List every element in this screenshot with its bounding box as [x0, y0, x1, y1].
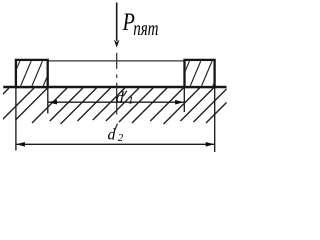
svg-text:d: d — [116, 89, 125, 106]
svg-text:1: 1 — [128, 95, 134, 107]
svg-text:пят: пят — [133, 17, 158, 40]
svg-text:2: 2 — [118, 132, 124, 144]
